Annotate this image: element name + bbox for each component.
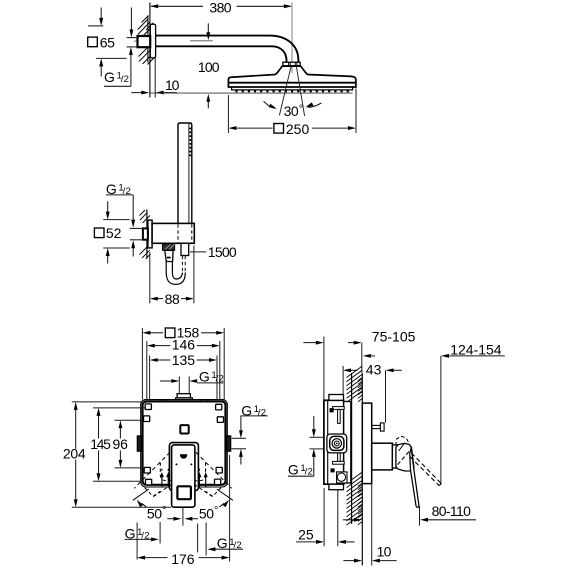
wall section front line (361, 373, 363, 566)
arm centerline / 380 extension (291, 3, 293, 74)
svg-text:°: ° (299, 104, 303, 116)
50 deg leader arrow right (217, 489, 233, 500)
spray angle arc arrow right (308, 103, 322, 107)
label 1500 (hose length) leader (190, 251, 206, 253)
svg-text:65: 65 (100, 34, 115, 50)
fitting extension lines (127, 37, 138, 39)
mixer internal clip top (333, 407, 345, 410)
reference line spray face level (151, 92, 353, 94)
handle swing dashed line left (134, 452, 170, 488)
spray angle arc arrow left (264, 101, 275, 108)
holder G1/2 nipple (143, 228, 148, 239)
lever dots (176, 463, 178, 465)
wall line (hand shower holder) (146, 210, 148, 259)
svg-text:204: 204 (63, 445, 86, 461)
mixer body top stub (329, 395, 344, 401)
hose cone connector (165, 250, 173, 261)
dimension 135 (149, 356, 151, 400)
shower head rim band line (228, 82, 356, 84)
wall hatching below arm flange (139, 50, 151, 62)
arm square fitting (G 1/2 nipple) (138, 36, 151, 47)
svg-text:52: 52 (106, 225, 122, 241)
handle rotated position (dashed) (396, 436, 409, 445)
mixer bottom port housing and circle (337, 472, 347, 483)
wall section rear line (351, 373, 353, 524)
arm centerline segments (134, 40, 138, 42)
box mounting screws (145, 404, 151, 410)
label square-65 with extension lines (88, 25, 103, 27)
mixer mounting flange (344, 402, 351, 484)
mixer trim escutcheon (front) (169, 443, 198, 491)
head connector nut (283, 62, 300, 65)
top port stub (front view) (177, 394, 190, 398)
label G1/2 (top port) with arrows (178, 377, 180, 394)
stick hidden inside holder (dashed) (177, 224, 179, 243)
dimension 80-110 (lever reach down) (419, 506, 421, 526)
handle lever blade (closed position) (410, 448, 419, 508)
square-65 arrows (100, 8, 102, 19)
dimension 176 (overall width) (136, 523, 138, 560)
svg-text:G: G (288, 461, 299, 477)
wall hatching bottom band (347, 472, 363, 484)
concealed mixer box inner outline (143, 401, 226, 484)
wall hatching above holder plate (140, 212, 148, 220)
dimension 10 (trim plate) (371, 484, 373, 566)
svg-text:2: 2 (124, 74, 129, 85)
box center square detail (180, 425, 188, 433)
shower arm (wall arm, side view) (156, 36, 299, 63)
svg-text:380: 380 (209, 0, 231, 15)
mixer body (side view) outer (324, 400, 344, 484)
holder outlet knurled nut (163, 244, 175, 250)
dimension 96 (119, 420, 123, 428)
svg-text:1500: 1500 (208, 244, 237, 260)
spray nozzles (235, 90, 237, 92)
dimension 75-105 (rough-in depth) (323, 337, 325, 400)
svg-text:43: 43 (366, 361, 382, 377)
dimension 10 (flange depth) (154, 58, 156, 98)
cartridge body (372, 443, 393, 470)
svg-text:G: G (104, 69, 115, 85)
wall hatching above arm flange (138, 22, 150, 35)
dimension 43 (342, 366, 344, 398)
handle swing dashed line right lower (194, 484, 214, 497)
svg-text:10: 10 (165, 77, 180, 93)
mixer body bottom stub (329, 484, 344, 490)
hand shower holder body (152, 223, 194, 243)
dimension 100 (arm to spray face) (207, 23, 209, 33)
svg-text:145: 145 (90, 436, 111, 452)
svg-text:135: 135 (172, 352, 196, 368)
concealed mixer box outer outline (141, 400, 228, 487)
spray angle 30 deg lines (279, 66, 291, 116)
square-52 extension lines (103, 219, 129, 221)
bottom port centerline and arrows (182, 507, 184, 525)
hand shower hose connector (181, 243, 189, 255)
hand shower stick (178, 123, 192, 224)
dashed trim outline corner right (195, 463, 206, 481)
dimension 124-154 (lever reach horizontal) (440, 356, 442, 485)
shower head (square 250 head, side view) (228, 66, 356, 87)
carrier pin (372, 425, 381, 428)
handle swing dashed line left lower (152, 484, 172, 497)
dimension 380 (arm length) (151, 5, 203, 7)
trim plate (side view) (362, 403, 371, 484)
dimension 145 (97, 408, 101, 416)
bottom hidden port extension lines (159, 522, 161, 544)
svg-text:G: G (199, 368, 210, 384)
hose U-bend (166, 272, 185, 284)
dimension 25 (plaster depth) (323, 488, 325, 546)
svg-text:75-105: 75-105 (372, 328, 416, 344)
hand shower nozzle dots (190, 128, 192, 130)
svg-text:30: 30 (284, 103, 299, 119)
holder nipple extension lines (130, 227, 143, 229)
mixer valve connection (side) (327, 434, 347, 453)
lever mouth detail (180, 454, 187, 458)
square-52 arrows (107, 201, 109, 212)
holder nipple lower arrow (132, 248, 134, 257)
svg-text:2: 2 (219, 373, 224, 384)
hose upper section (165, 262, 167, 273)
svg-text:50: 50 (147, 506, 162, 522)
lever blade rotated (dashed) (411, 453, 441, 483)
dashed V mark right (206, 488, 222, 497)
svg-text:146: 146 (172, 337, 196, 353)
handle swing dashed line right (196, 452, 232, 488)
dimension 146 (screw spacing) (146, 341, 148, 400)
left extension lines of front view (72, 401, 141, 403)
label square-52 (holder plate size) (94, 228, 104, 238)
svg-text:25: 25 (298, 527, 314, 543)
dashed V mark left (145, 488, 161, 497)
dimension 88 (holder depth) (149, 252, 151, 303)
dimension square-250 (head width) (227, 95, 229, 133)
svg-text:100: 100 (198, 59, 220, 75)
mixer lever (front) (172, 445, 195, 507)
wall line (top left, shower arm mount) (147, 16, 149, 63)
mixer internal clip bottom (338, 453, 341, 462)
handle cap (396, 443, 414, 471)
holder wall plate (square 52 escutcheon, edge view) (148, 220, 152, 248)
dimension 204 (overall height) (74, 402, 78, 410)
shower head spray face (232, 87, 353, 90)
wall hatching below holder plate (140, 247, 148, 255)
dashed trim outline corner left (160, 463, 171, 481)
svg-text:2: 2 (308, 466, 313, 477)
lever bottom square opening (177, 486, 191, 499)
svg-text:50: 50 (199, 506, 214, 522)
fitting top arrow (130, 8, 132, 31)
svg-text:°: ° (214, 505, 218, 517)
svg-text:2: 2 (261, 407, 266, 418)
svg-text:124-154: 124-154 (450, 341, 502, 357)
hidden bottom outlet marks (small arrows) (161, 469, 163, 471)
dimension square-158 (box width) (141, 328, 143, 400)
svg-text:176: 176 (171, 551, 195, 567)
cartridge collar (392, 445, 397, 468)
box side ports (G1/2 tabs) (137, 436, 141, 451)
svg-text:10: 10 (377, 543, 392, 559)
50 deg leader arrow left (133, 489, 149, 500)
svg-text:80-110: 80-110 (432, 503, 472, 519)
svg-text:88: 88 (165, 291, 180, 307)
svg-text:250: 250 (286, 121, 310, 137)
wall hatching top band (347, 366, 363, 378)
svg-text:96: 96 (113, 436, 129, 452)
arm wall flange (escutcheon, edge view) (150, 24, 155, 58)
hose hidden section (dashed) (181, 256, 183, 272)
marks on box top edge (159, 400, 161, 402)
